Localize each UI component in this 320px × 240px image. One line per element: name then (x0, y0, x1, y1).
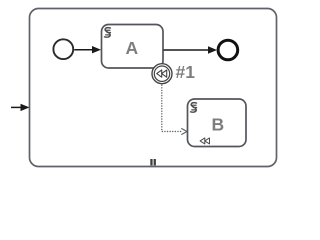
subprocess container (30, 9, 277, 167)
svg-text:#1: #1 (176, 62, 196, 82)
multi-instance marker on subprocess (150, 159, 156, 165)
end event (218, 40, 238, 60)
boundary event (compensation) (152, 64, 172, 84)
start event (53, 39, 73, 59)
svg-text:B: B (211, 115, 224, 135)
wire association boundary to B (162, 85, 187, 134)
script icon A (104, 28, 110, 37)
svg-text:A: A (125, 38, 138, 58)
script icon B (191, 103, 197, 112)
compensation marker on B (200, 138, 209, 144)
wire A to end (164, 46, 218, 53)
task A (102, 25, 164, 69)
wire start to A (74, 46, 101, 53)
task B (188, 99, 247, 147)
wire incoming sequence flow (11, 104, 30, 111)
